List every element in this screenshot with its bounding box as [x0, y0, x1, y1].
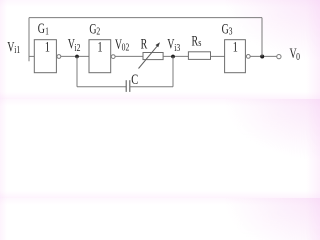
capacitor C right plate: [129, 80, 131, 92]
svg-text:G: G: [222, 21, 229, 37]
node Vi3 label: [167, 36, 174, 52]
node Vi2 label: [68, 36, 75, 52]
svg-text:G: G: [38, 20, 45, 36]
gate designator G3: [222, 21, 229, 37]
wire: into G1 input: [29, 55, 34, 57]
node Vi3 junction dot: [171, 55, 175, 59]
svg-text:1: 1: [233, 38, 238, 55]
G1 output inversion bubble: [57, 55, 61, 59]
wire: G1 output to G2 input: [61, 55, 89, 57]
node V0 label: [290, 45, 297, 61]
inverter gate G1 box: [34, 40, 56, 73]
svg-text:i1: i1: [14, 44, 20, 55]
node V0 junction dot (feedback tap): [260, 55, 264, 59]
wire: Vi3 junction down to capacitor branch: [172, 57, 174, 87]
wire: bottom capacitor branch right segment: [130, 86, 173, 88]
inverter gate G3 box: [225, 40, 246, 73]
wire: R to Rs: [163, 55, 188, 57]
output terminal circle: [277, 54, 281, 58]
svg-text:1: 1: [45, 25, 49, 36]
svg-text:G: G: [89, 21, 96, 37]
resistor R label: [141, 36, 148, 52]
resistor Rs body: [188, 52, 210, 60]
wire: G3 output to terminal: [250, 55, 276, 57]
gate designator G2: [89, 21, 96, 37]
node Vi1 label: [7, 39, 14, 55]
wire: Vi2 junction down to capacitor branch: [76, 57, 78, 87]
gate G3 function label 1: [233, 38, 238, 55]
svg-text:V: V: [7, 39, 14, 55]
gate designator G1: [38, 20, 45, 36]
wire: bottom capacitor branch left segment: [77, 86, 126, 88]
wire: feedback right vertical up to top wire: [261, 18, 263, 57]
svg-text:C: C: [131, 70, 138, 87]
wire: feedback top horizontal from output node back to input: [29, 17, 262, 19]
potentiometer arrow shaft: [139, 46, 158, 68]
capacitor C label: [131, 70, 138, 87]
svg-text:R: R: [141, 36, 148, 52]
svg-text:1: 1: [45, 38, 50, 55]
svg-text:3: 3: [229, 26, 233, 37]
svg-text:0: 0: [296, 51, 300, 62]
node Vi2 junction dot: [75, 55, 79, 59]
svg-text:s: s: [198, 38, 201, 49]
resistor Rs label: [192, 33, 199, 49]
gate G2 function label 1: [97, 38, 102, 55]
svg-text:1: 1: [97, 38, 102, 55]
potentiometer arrowhead: [156, 42, 161, 47]
inverter gate G2 box: [89, 40, 111, 73]
svg-text:i3: i3: [174, 42, 180, 53]
resistor R body (potentiometer): [143, 53, 163, 60]
svg-text:V: V: [167, 36, 174, 52]
wire: Rs to G3 input: [211, 55, 225, 57]
G2 output inversion bubble: [111, 55, 115, 59]
svg-text:02: 02: [122, 42, 130, 53]
svg-text:i2: i2: [75, 42, 81, 53]
node Vo2 label: [115, 36, 122, 52]
wire: feedback left vertical down to G1 input: [28, 18, 30, 62]
wire: G2 output Vo2 to resistor R: [115, 55, 143, 57]
G3 output inversion bubble: [246, 55, 250, 59]
capacitor C left plate: [125, 80, 127, 92]
svg-text:2: 2: [96, 26, 100, 37]
gate G1 function label 1: [45, 38, 50, 55]
